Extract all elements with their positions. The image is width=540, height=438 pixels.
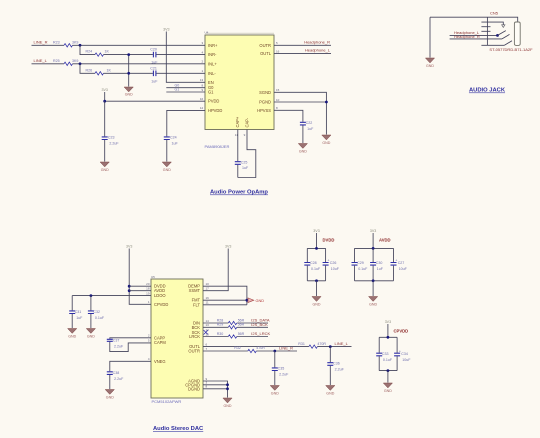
wire CPVDD rail bottom	[379, 369, 397, 382]
jack switch lever 2	[502, 34, 510, 39]
wire VNEG	[110, 361, 151, 371]
wire AVDD rail top	[355, 247, 394, 250]
wire SGND PGND to ground	[274, 92, 328, 134]
svg-text:C24: C24	[170, 136, 177, 140]
ground SGND	[322, 135, 331, 145]
svg-text:XSMT: XSMT	[189, 288, 201, 293]
capacitor C29 0.1uF	[352, 248, 369, 280]
wire AGND CPGND DGND	[203, 381, 229, 398]
capacitor C31 1uF	[69, 296, 83, 328]
svg-text:OUTL: OUTL	[260, 51, 272, 56]
power 3V3 XSMT	[225, 245, 231, 249]
capacitor C32 0.1uF	[88, 296, 105, 328]
jack pin tick 2	[481, 26, 490, 28]
pin numbers U5 right	[206, 282, 210, 389]
svg-text:I2S_BCK: I2S_BCK	[251, 322, 268, 327]
svg-text:2.2uF: 2.2uF	[335, 367, 345, 371]
ground U5	[223, 398, 232, 408]
svg-text:2.2uF: 2.2uF	[114, 344, 124, 348]
svg-text:INL+: INL+	[208, 61, 217, 66]
svg-text:C20: C20	[150, 47, 157, 51]
svg-text:G1: G1	[175, 88, 180, 92]
svg-text:1uF: 1uF	[76, 316, 83, 320]
svg-text:56R: 56R	[238, 332, 245, 336]
svg-text:PVDD: PVDD	[208, 99, 219, 104]
resistor R30 56R	[228, 335, 236, 338]
wire LRCK I2S_LRCK	[203, 331, 271, 336]
svg-text:C33: C33	[382, 352, 389, 356]
svg-text:56R: 56R	[238, 323, 245, 327]
op-amp U4 PAM8908JER body	[205, 31, 275, 150]
jack pin bus	[486, 17, 488, 45]
node junction LINE_L	[79, 62, 82, 65]
svg-text:LINE_L: LINE_L	[34, 58, 48, 63]
capacitor C37 2.2uF flying	[107, 338, 151, 351]
svg-text:CAPM: CAPM	[154, 340, 166, 345]
svg-text:CAP-: CAP-	[244, 117, 249, 127]
capacitor C34 10uF	[394, 337, 411, 370]
svg-text:Headphone_L: Headphone_L	[305, 48, 331, 53]
wire jack top to barrel	[430, 17, 518, 22]
svg-text:11: 11	[206, 301, 209, 305]
svg-text:GND: GND	[384, 389, 392, 393]
svg-text:GND: GND	[322, 141, 330, 145]
svg-text:3V3: 3V3	[313, 229, 319, 233]
svg-text:I2S_LRCK: I2S_LRCK	[251, 331, 270, 336]
wire Headphone_L to jack	[450, 30, 499, 37]
svg-text:C29: C29	[357, 261, 364, 265]
wire DEMP	[203, 286, 247, 305]
resistor R23 3K9	[34, 39, 79, 47]
svg-text:17: 17	[206, 287, 210, 291]
capacitor C38 2.2uF	[107, 371, 124, 389]
svg-text:R30: R30	[217, 332, 224, 336]
wire input bias to ground	[127, 53, 130, 86]
wire FMT	[203, 299, 248, 302]
svg-text:PGND: PGND	[259, 100, 271, 105]
capacitor C22 1uF	[300, 121, 314, 143]
wire G1	[166, 88, 205, 92]
power 3V3 CPVDD rail	[385, 320, 408, 337]
wire CPVDD rail top	[379, 336, 397, 339]
svg-text:C21: C21	[150, 66, 157, 70]
svg-text:1K: 1K	[107, 68, 112, 72]
capacitor C28 0.1uF	[304, 248, 321, 280]
svg-text:15: 15	[276, 88, 280, 92]
wire OUTL LINE_L	[203, 341, 352, 348]
ground C22	[298, 144, 307, 154]
svg-text:R25: R25	[53, 59, 60, 63]
svg-text:0.1uF: 0.1uF	[358, 267, 368, 271]
svg-text:CN5: CN5	[490, 11, 499, 16]
svg-text:R29: R29	[217, 323, 224, 327]
wire LDOO	[72, 294, 151, 297]
wire OUTL Headphone_L	[274, 48, 331, 54]
svg-text:R23: R23	[53, 40, 60, 44]
svg-text:DGND: DGND	[188, 386, 200, 391]
wire DVDD rail top	[307, 247, 325, 250]
svg-text:C28: C28	[310, 261, 317, 265]
wire HPVSS	[274, 110, 303, 122]
svg-text:10uF: 10uF	[331, 267, 340, 271]
pin numbers U4 right	[235, 41, 280, 137]
svg-text:470R: 470R	[256, 346, 265, 350]
svg-text:VNEG: VNEG	[154, 359, 166, 364]
node junction LINE_R	[79, 44, 82, 47]
title AUDIO JACK	[469, 88, 506, 94]
svg-text:C27: C27	[398, 261, 405, 265]
jack pin tick 1 with contact arrow	[481, 22, 505, 27]
svg-text:Headphone_R: Headphone_R	[304, 39, 330, 44]
svg-text:GND: GND	[163, 168, 171, 172]
wire Headphone_R to jack	[450, 34, 502, 39]
svg-text:16: 16	[206, 296, 210, 300]
svg-text:3K9: 3K9	[72, 40, 78, 44]
no-connect SCK	[204, 330, 208, 334]
resistor R29 56R	[228, 326, 236, 329]
svg-text:AUDIO JACK: AUDIO JACK	[469, 88, 506, 94]
power 3V3 PVDD	[101, 88, 107, 92]
svg-text:DVDD: DVDD	[323, 238, 335, 243]
svg-text:U4: U4	[205, 31, 209, 35]
svg-text:PAM8908JER: PAM8908JER	[205, 144, 230, 149]
wire DIN I2S_DATA	[203, 318, 270, 323]
svg-text:U5: U5	[151, 275, 155, 279]
wire BCK I2S_BCK	[203, 322, 268, 327]
svg-text:GND: GND	[256, 299, 265, 303]
svg-text:0.1uF: 0.1uF	[95, 316, 105, 320]
jack pin tick bottom	[481, 44, 504, 46]
svg-text:EN: EN	[208, 80, 214, 85]
capacitor C36 2.2uF	[327, 347, 344, 385]
jack barrel	[514, 22, 520, 45]
svg-text:1uF: 1uF	[377, 267, 384, 271]
title Audio Stereo DAC	[153, 426, 204, 432]
power 3V3 AVDD rail	[370, 229, 391, 248]
svg-text:HPVDD: HPVDD	[208, 108, 222, 113]
svg-text:1K: 1K	[105, 50, 110, 54]
svg-text:FLT: FLT	[193, 302, 200, 307]
wire CAP- loop	[238, 130, 256, 178]
svg-text:2.2uF: 2.2uF	[279, 373, 289, 377]
capacitor C24 1uF	[164, 136, 179, 162]
svg-text:C36: C36	[333, 361, 340, 365]
svg-text:GND: GND	[68, 334, 76, 338]
capacitor C23 2.2uF	[102, 101, 120, 161]
wire jack shield to ground	[429, 17, 431, 57]
svg-text:19: 19	[146, 291, 150, 295]
svg-text:R26: R26	[86, 68, 93, 72]
pin numbers U4 left	[200, 41, 204, 110]
resistor R28 56R	[228, 321, 236, 324]
svg-text:0.1uF: 0.1uF	[383, 358, 393, 362]
svg-text:18: 18	[146, 287, 150, 291]
capacitor C27 10uF	[391, 248, 408, 280]
svg-text:GND: GND	[326, 391, 334, 395]
svg-text:3V3: 3V3	[163, 28, 169, 32]
svg-text:G0: G0	[175, 83, 180, 87]
ground jack	[425, 58, 434, 68]
svg-text:C22: C22	[306, 121, 313, 125]
resistor R31 470R	[309, 345, 317, 348]
capacitor C20 1uF series	[150, 47, 158, 64]
capacitor C35 2.2uF	[272, 351, 289, 385]
svg-text:LDOO: LDOO	[154, 293, 166, 298]
svg-text:OUTR: OUTR	[188, 349, 200, 354]
wire DVDD	[129, 285, 151, 287]
svg-text:Headphone_R: Headphone_R	[454, 34, 480, 39]
svg-text:R32: R32	[234, 346, 241, 350]
svg-text:C25: C25	[241, 160, 248, 164]
resistor R32 470R	[248, 349, 256, 352]
svg-text:GND: GND	[369, 302, 377, 306]
svg-text:CPVDD: CPVDD	[394, 329, 409, 334]
ground C36	[326, 386, 335, 396]
wire OUTR LINE_R	[203, 345, 297, 352]
resistor R24 1K	[86, 50, 110, 57]
svg-text:0.1uF: 0.1uF	[311, 267, 321, 271]
power 3V3 left rail	[126, 245, 132, 249]
svg-text:R24: R24	[86, 50, 93, 54]
wire AVDD rail bottom	[355, 279, 394, 296]
jack switch lever 3	[504, 41, 512, 46]
ground AVDD rail	[369, 297, 378, 307]
svg-text:1uF: 1uF	[151, 79, 158, 83]
ground CPVDD rail	[383, 383, 392, 393]
svg-text:GND: GND	[101, 168, 109, 172]
svg-text:GND: GND	[106, 395, 114, 399]
svg-text:R31: R31	[298, 342, 305, 346]
svg-text:20: 20	[146, 282, 150, 286]
wire drop to R24 row	[80, 45, 205, 54]
svg-text:GND: GND	[224, 404, 232, 408]
wire LINE_R to INR+	[32, 44, 206, 46]
wire XSMT to 3V3	[203, 249, 228, 291]
svg-text:C35: C35	[278, 367, 285, 371]
svg-text:ST-0577DRD-B71-1A2F: ST-0577DRD-B71-1A2F	[489, 47, 533, 52]
svg-text:LINE_R: LINE_R	[279, 345, 293, 350]
capacitor C26 10uF	[323, 248, 340, 280]
svg-text:10uF: 10uF	[402, 358, 411, 362]
svg-text:GND: GND	[299, 149, 307, 153]
svg-text:3V3: 3V3	[225, 245, 231, 249]
wire AVDD	[129, 290, 151, 292]
svg-text:LINE_R: LINE_R	[34, 39, 48, 44]
svg-text:3V3: 3V3	[385, 320, 391, 324]
DAC U5 PCM5102APWR body	[151, 275, 203, 404]
svg-text:13: 13	[200, 78, 204, 82]
svg-text:INL-: INL-	[208, 71, 216, 76]
wire DVDD rail bottom	[307, 279, 325, 296]
svg-text:Audio Stereo DAC: Audio Stereo DAC	[153, 426, 204, 432]
svg-text:GND: GND	[125, 93, 133, 97]
svg-text:13: 13	[206, 323, 210, 327]
svg-text:SGND: SGND	[259, 90, 271, 95]
svg-text:1uF: 1uF	[307, 127, 314, 131]
ground C23	[100, 162, 109, 172]
svg-text:GND: GND	[426, 64, 434, 68]
svg-text:GND: GND	[313, 302, 321, 306]
svg-text:C37: C37	[113, 338, 120, 342]
capacitor C21 1uF series	[150, 66, 158, 83]
svg-text:LINE_L: LINE_L	[335, 341, 349, 346]
svg-text:Audio Power OpAmp: Audio Power OpAmp	[210, 190, 268, 196]
svg-text:CAP+: CAP+	[235, 116, 240, 127]
svg-text:1uF: 1uF	[242, 166, 249, 170]
wire HPVDD	[167, 110, 205, 136]
ground arrow FMT net	[248, 298, 264, 303]
capacitor C25 1uF	[235, 160, 249, 177]
ground C32	[86, 329, 95, 339]
wire PVDD	[103, 92, 205, 103]
wire FLT	[203, 304, 247, 306]
jack part number	[489, 47, 533, 52]
svg-text:3V3: 3V3	[101, 88, 107, 92]
ground DVDD rail	[312, 297, 321, 307]
power 3V3 DVDD rail	[313, 229, 334, 248]
power 3V3 EN	[163, 28, 169, 32]
wire drop to R26 row	[80, 64, 205, 74]
wire CAP+ leg	[237, 130, 239, 162]
svg-text:OUTR: OUTR	[259, 43, 271, 48]
ground C38	[105, 390, 114, 400]
svg-text:INR-: INR-	[208, 52, 217, 57]
jack pin tick 3	[481, 30, 490, 32]
svg-text:10uF: 10uF	[399, 267, 408, 271]
wire LINE_L to INL+	[32, 63, 206, 65]
svg-text:C34: C34	[401, 352, 408, 356]
svg-text:3V3: 3V3	[370, 229, 376, 233]
svg-text:C32: C32	[93, 310, 100, 314]
svg-text:LRCK: LRCK	[189, 334, 200, 339]
wire EN	[166, 32, 205, 83]
pin numbers U5 left	[146, 282, 150, 361]
svg-text:470R: 470R	[317, 342, 326, 346]
svg-text:3V3: 3V3	[126, 245, 132, 249]
svg-text:C31: C31	[75, 310, 82, 314]
svg-text:HPVSS: HPVSS	[257, 108, 271, 113]
svg-text:PCM5102APWR: PCM5102APWR	[152, 399, 182, 404]
wire OUTR Headphone_R	[274, 39, 331, 45]
svg-text:INR+: INR+	[208, 43, 218, 48]
svg-text:C30: C30	[376, 261, 383, 265]
svg-text:3K9: 3K9	[72, 59, 78, 63]
svg-text:GND: GND	[271, 391, 279, 395]
wire 3V3 to DVDD AVDD CPVDD	[128, 249, 151, 305]
svg-text:AVDD: AVDD	[379, 238, 391, 243]
svg-text:12: 12	[200, 106, 204, 110]
resistor R25 3K9	[34, 58, 79, 66]
svg-text:GND: GND	[87, 334, 95, 338]
svg-text:CPVDD: CPVDD	[154, 302, 168, 307]
svg-text:16: 16	[276, 49, 280, 53]
ground input bias	[124, 87, 133, 97]
capacitor C30 1uF	[370, 248, 384, 280]
svg-text:1uF: 1uF	[172, 142, 179, 146]
svg-text:2.2uF: 2.2uF	[114, 377, 124, 381]
ground C31	[68, 329, 77, 339]
ground C24	[162, 162, 171, 172]
wire G0	[166, 83, 205, 87]
resistor R26 1K	[86, 68, 112, 75]
title Audio Power OpAmp	[210, 190, 268, 196]
jack switch lever 1	[498, 31, 506, 36]
connector CN5 audio jack	[490, 11, 499, 16]
svg-text:C23: C23	[108, 136, 115, 140]
svg-text:2.2uF: 2.2uF	[109, 142, 119, 146]
svg-text:10: 10	[276, 98, 280, 102]
svg-text:16: 16	[200, 97, 204, 101]
designator line U4	[206, 32, 274, 34]
svg-text:10: 10	[206, 282, 210, 286]
svg-text:C38: C38	[113, 371, 120, 375]
svg-text:C26: C26	[330, 261, 337, 265]
wire CAPP loop	[110, 338, 151, 339]
capacitor C33 0.1uF	[376, 337, 393, 370]
svg-text:G1: G1	[208, 90, 214, 95]
ground C35	[270, 386, 279, 396]
